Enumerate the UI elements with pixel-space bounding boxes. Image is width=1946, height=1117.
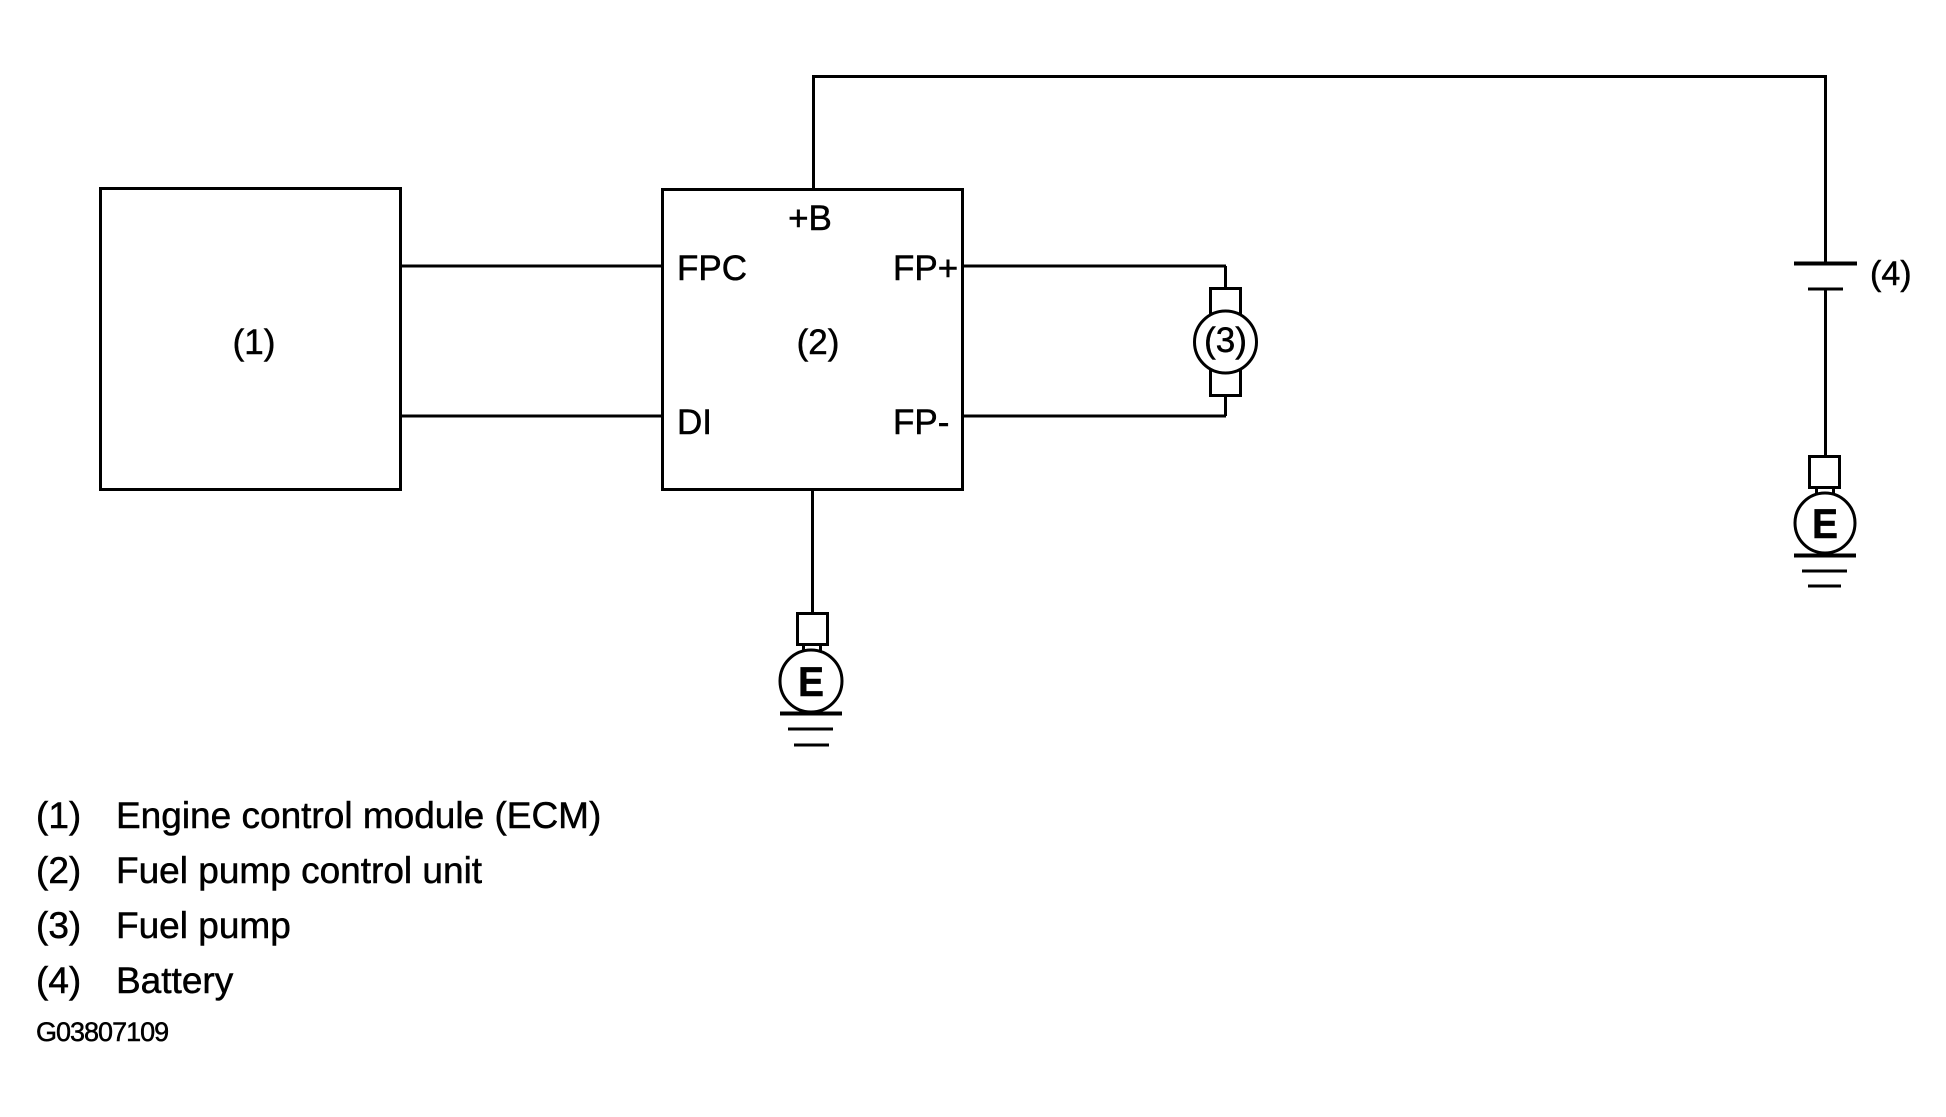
svg-text:(1): (1) — [36, 795, 81, 836]
ground bars left — [780, 714, 842, 746]
fuel pump (3) body — [1211, 289, 1241, 396]
svg-text:DI: DI — [677, 403, 712, 442]
battery (4) top plate — [1794, 262, 1857, 266]
pin label FPC — [677, 249, 747, 288]
legend row 4 — [36, 960, 234, 1001]
neck lines left — [804, 644, 821, 653]
svg-text:(3): (3) — [1204, 321, 1247, 360]
svg-text:FP+: FP+ — [893, 249, 958, 288]
connector square left — [798, 614, 828, 645]
label (3) — [1204, 321, 1247, 360]
svg-text:FPC: FPC — [677, 249, 747, 288]
pin label DI — [677, 403, 712, 442]
legend row 3 — [36, 905, 291, 946]
label (2) — [797, 323, 840, 362]
wire battery to ground connector — [1824, 291, 1827, 457]
svg-text:(3): (3) — [36, 905, 81, 946]
svg-text:E: E — [798, 658, 824, 705]
svg-text:Battery: Battery — [116, 960, 234, 1001]
svg-text:Fuel pump: Fuel pump — [116, 905, 291, 946]
legend row 1 — [36, 795, 601, 836]
wire battery drop — [1824, 75, 1827, 262]
svg-text:Fuel pump control unit: Fuel pump control unit — [116, 850, 483, 891]
wire top horizontal run to battery — [812, 75, 1826, 78]
pin label FP- — [893, 403, 949, 442]
wire DI: ECM to control unit — [400, 415, 663, 418]
legend row 2 — [36, 850, 483, 891]
ground E letter left — [798, 658, 824, 705]
wire pump to FP- — [963, 395, 1226, 416]
wire FPC: ECM to control unit — [400, 265, 663, 268]
ground E circle right — [1795, 493, 1855, 553]
fuel pump control unit box (2) — [663, 190, 963, 490]
figure id G03807109 — [36, 1017, 168, 1047]
svg-text:(4): (4) — [1870, 255, 1912, 293]
svg-text:G03807109: G03807109 — [36, 1017, 168, 1047]
ground E circle left — [780, 650, 842, 712]
wire FP+ to pump — [963, 266, 1226, 290]
pin label +B — [788, 199, 832, 238]
ground E letter right — [1812, 500, 1838, 547]
connector square right — [1810, 457, 1840, 488]
ground bars right — [1794, 556, 1856, 587]
svg-text:(4): (4) — [36, 960, 81, 1001]
svg-text:(2): (2) — [36, 850, 81, 891]
svg-text:FP-: FP- — [893, 403, 949, 442]
ECM box (1) — [101, 189, 401, 490]
wire box (2) bottom to ground connector — [811, 490, 814, 613]
svg-text:+B: +B — [788, 199, 832, 238]
pin label FP+ — [893, 249, 958, 288]
svg-text:(1): (1) — [233, 323, 276, 362]
label (4) — [1870, 255, 1912, 293]
svg-text:E: E — [1812, 500, 1838, 547]
fuel pump (3) motor circle — [1195, 311, 1257, 373]
svg-text:Engine control module (ECM): Engine control module (ECM) — [116, 795, 601, 836]
label (1) — [233, 323, 276, 362]
wire +B riser from box (2) top — [812, 76, 815, 189]
neck lines right — [1817, 487, 1834, 496]
svg-text:(2): (2) — [797, 323, 840, 362]
battery (4) bottom plate — [1808, 288, 1843, 291]
